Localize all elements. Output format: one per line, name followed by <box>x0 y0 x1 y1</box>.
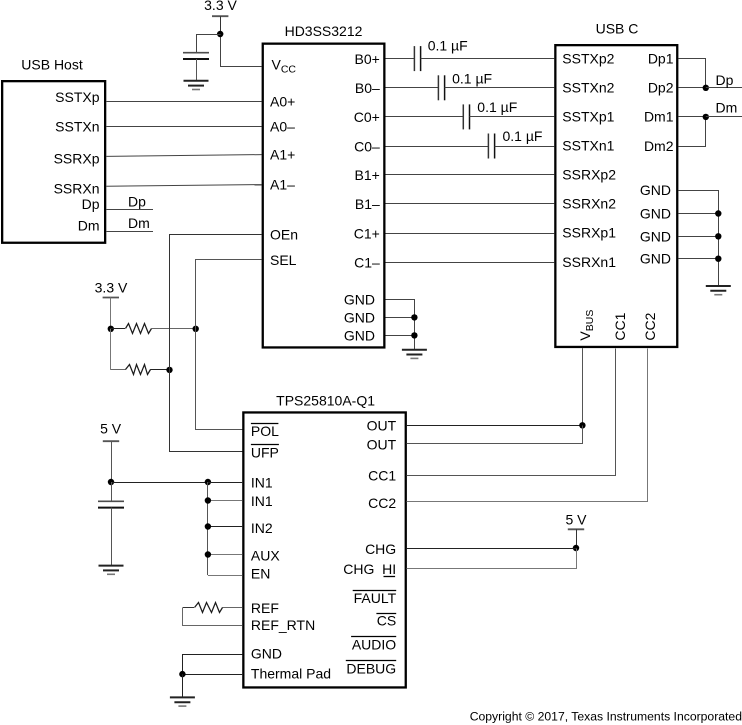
wire U1 B0– to capacitor C3 <box>386 87 439 89</box>
wire U1 C0– to capacitor C5 <box>386 146 489 148</box>
resistor R2 (OEn pull-up) <box>126 365 151 375</box>
svg-text:SSRXn1: SSRXn1 <box>562 254 616 270</box>
svg-text:SEL: SEL <box>270 252 297 268</box>
wire branch to AUX <box>208 554 242 556</box>
svg-text:C1–: C1– <box>354 254 380 270</box>
svg-text:IN2: IN2 <box>251 520 273 536</box>
svg-text:REF_RTN: REF_RTN <box>251 617 315 633</box>
node CHG junction <box>573 545 579 551</box>
svg-text:DEBUG: DEBUG <box>346 661 396 677</box>
svg-text:Dp1: Dp1 <box>648 50 674 66</box>
wire capacitor C5 to USB C <box>495 146 555 148</box>
wire junction to capacitor C1 <box>197 35 221 53</box>
resistor R1 (SEL pull-up) <box>126 324 152 334</box>
node GND/Thermal junction <box>179 671 185 677</box>
node IN2 junction <box>205 523 211 529</box>
svg-text:GND: GND <box>344 310 375 326</box>
U2 pin FAULT overline <box>353 590 397 592</box>
svg-text:Dm: Dm <box>128 215 150 231</box>
wire Dp node to edge <box>706 87 742 89</box>
svg-text:SSTXn2: SSTXn2 <box>562 80 614 96</box>
wire R3 to corner <box>183 607 194 609</box>
wire REF to R3 <box>222 607 242 609</box>
svg-text:C1+: C1+ <box>354 225 380 241</box>
wire junction to capacitor C6 <box>111 482 113 501</box>
wire Dm stub (host) <box>106 231 153 233</box>
node 5V/C6 junction <box>108 479 114 485</box>
wire corner down to REF_RTN <box>183 608 243 626</box>
svg-text:A1–: A1– <box>270 176 295 192</box>
wire Dm2 to Dm node <box>679 117 706 147</box>
svg-text:Dp: Dp <box>716 72 734 88</box>
wire SSRXp to A1+ <box>106 155 261 157</box>
svg-text:C0–: C0– <box>354 138 380 154</box>
U2 pin DEBUG overline <box>346 660 396 662</box>
svg-text:SSRXn2: SSRXn2 <box>562 196 616 212</box>
svg-text:CHG HI: CHG HI <box>343 561 396 577</box>
svg-text:REF: REF <box>251 600 279 616</box>
wire capacitor C6 to ground <box>111 508 113 566</box>
svg-text:AUDIO: AUDIO <box>352 636 396 652</box>
svg-text:A0–: A0– <box>270 119 295 135</box>
node AUX junction <box>205 551 211 557</box>
wire branch to EN <box>208 575 242 577</box>
node R1/SEL junction <box>193 326 199 332</box>
svg-text:EN: EN <box>251 566 270 582</box>
svg-text:0.1 µF: 0.1 µF <box>452 70 492 86</box>
svg-text:VBUS: VBUS <box>577 310 596 341</box>
wire 5V bar to IN1 junction <box>111 441 113 482</box>
svg-text:B1–: B1– <box>355 196 380 212</box>
svg-text:5 V: 5 V <box>565 512 587 528</box>
U2 pin AUDIO overline <box>351 636 396 638</box>
svg-text:SSRXn: SSRXn <box>54 180 100 196</box>
svg-text:0.1 µF: 0.1 µF <box>503 128 543 144</box>
svg-text:GND: GND <box>344 292 375 308</box>
svg-text:SSRXp1: SSRXp1 <box>562 225 616 241</box>
wire 5V to IN branch junction <box>111 482 208 484</box>
svg-text:5 V: 5 V <box>100 420 122 436</box>
svg-text:SSTXp1: SSTXp1 <box>562 109 614 125</box>
wire U2 CC1 to J2 CC1 <box>407 349 616 476</box>
node IN1-2 junction <box>205 497 211 503</box>
svg-text:SSTXn1: SSTXn1 <box>562 138 614 154</box>
svg-text:OEn: OEn <box>270 227 298 243</box>
ground (U1 GND) <box>402 349 427 351</box>
node J2 GND4 junction <box>715 256 721 262</box>
capacitor C3 <box>437 75 439 100</box>
wire OEn to UFP <box>170 235 262 452</box>
wire SSTXp to A0+ <box>106 101 261 103</box>
svg-text:CS: CS <box>377 612 396 628</box>
svg-text:Dp: Dp <box>128 194 146 210</box>
wire U1 C0+ to capacitor C4 <box>386 116 464 118</box>
svg-text:TPS25810A-Q1: TPS25810A-Q1 <box>276 393 375 409</box>
node Dp junction <box>703 85 709 91</box>
wire junction to R1 <box>111 328 125 330</box>
svg-text:CC1: CC1 <box>368 467 396 483</box>
U2 pin CHG HI underline <box>384 576 396 578</box>
wire branch to IN2 <box>208 526 242 528</box>
wire J2 GND2 to bus <box>678 213 718 215</box>
wire R1 to SEL net <box>151 328 196 330</box>
svg-text:IN1: IN1 <box>251 493 273 509</box>
svg-text:GND: GND <box>640 228 671 244</box>
wire U1 C1– to USB C <box>386 262 555 264</box>
svg-text:B0+: B0+ <box>354 51 379 67</box>
capacitor C1 (VCC decoupling) <box>183 52 209 54</box>
wire Dp2 to Dp node <box>678 87 705 89</box>
svg-text:IN1: IN1 <box>251 475 273 491</box>
ground (C6) <box>99 565 124 567</box>
wire CHG to junction <box>407 548 576 550</box>
svg-text:Dp: Dp <box>82 196 100 212</box>
svg-text:Dp2: Dp2 <box>648 80 674 96</box>
wire U1 GND3 to bus <box>386 335 415 337</box>
load switch U2 TPS25810A-Q1 body <box>243 412 405 687</box>
node U1 GND2 junction <box>411 314 417 320</box>
svg-text:Dm2: Dm2 <box>644 138 674 154</box>
wire capacitor C1 to ground <box>196 59 198 81</box>
capacitor C5 <box>487 134 489 159</box>
svg-text:SSRXp2: SSRXp2 <box>562 167 616 183</box>
svg-text:SSTXp: SSTXp <box>55 89 100 105</box>
wire corner to R2 <box>111 369 126 371</box>
ground (U2) <box>170 696 195 698</box>
wire U1 B0+ to capacitor C2 <box>386 58 415 60</box>
svg-text:0.1 µF: 0.1 µF <box>477 99 517 115</box>
ground (C1) <box>184 80 209 82</box>
wire U1 B1– to USB C <box>386 203 555 205</box>
svg-text:A1+: A1+ <box>270 146 295 162</box>
svg-text:3.3 V: 3.3 V <box>204 0 237 13</box>
U2 pin POL overline <box>251 423 279 425</box>
svg-text:B0–: B0– <box>355 80 380 96</box>
wire J2 GND4 to bus <box>678 258 718 260</box>
wire U2 GND to ground bus <box>183 655 243 675</box>
wire U1 GND1 to bus <box>386 300 415 350</box>
svg-text:Dm: Dm <box>716 99 738 115</box>
wire SSRXn to A1– <box>106 185 261 187</box>
svg-text:HD3SS3212: HD3SS3212 <box>285 23 363 39</box>
svg-text:CHG: CHG <box>365 541 396 557</box>
capacitor C2 <box>413 46 415 71</box>
wire Dm node to edge <box>706 116 742 118</box>
node Dm junction <box>703 114 709 120</box>
svg-text:GND: GND <box>640 182 671 198</box>
svg-text:POL: POL <box>251 423 279 439</box>
mux U1 HD3SS3212 body <box>263 44 385 348</box>
svg-text:VCC: VCC <box>272 57 297 76</box>
usb-c connector J2 body <box>555 45 677 347</box>
wire IN branch vertical <box>207 482 209 575</box>
svg-text:0.1 µF: 0.1 µF <box>428 37 468 53</box>
wire SSTXn to A0– <box>106 126 261 128</box>
svg-text:GND: GND <box>640 251 671 267</box>
svg-text:GND: GND <box>640 206 671 222</box>
wire 5V bar to CHG junction <box>576 529 578 548</box>
svg-text:UFP: UFP <box>251 444 279 460</box>
wire supply junction down to R2 <box>110 329 112 370</box>
wire U2 OUT2 to VBUS <box>407 426 583 444</box>
svg-text:Dm: Dm <box>78 217 100 233</box>
node J2 GND2 junction <box>715 210 721 216</box>
node IN branch junction <box>205 479 211 485</box>
node J2 GND3 junction <box>715 233 721 239</box>
wire junction to ground <box>182 674 184 697</box>
svg-text:CC2: CC2 <box>368 495 396 511</box>
wire U1 GND2 to bus <box>386 317 415 319</box>
power 3.3V rail bar (mid) <box>103 297 119 299</box>
U2 pin UFP overline <box>251 444 279 446</box>
capacitor C4 <box>462 104 464 129</box>
U2 pin CS overline <box>376 613 396 615</box>
resistor R3 (REF) <box>195 603 223 613</box>
node 3.3V/VCC junction <box>217 31 223 37</box>
power 5V rail bar (left) <box>103 440 119 442</box>
node R2/OEn junction <box>166 367 172 373</box>
wire J2 GND1 to bus <box>679 191 719 286</box>
node OUT/VBUS junction <box>579 422 585 428</box>
svg-text:C0+: C0+ <box>354 109 380 125</box>
svg-text:USB Host: USB Host <box>21 57 83 73</box>
svg-text:OUT: OUT <box>367 437 397 453</box>
svg-text:Copyright © 2017, Texas Instru: Copyright © 2017, Texas Instruments Inco… <box>470 709 742 723</box>
svg-text:CC2: CC2 <box>642 312 658 340</box>
wire junction to IN1 <box>208 482 242 484</box>
svg-text:Dm1: Dm1 <box>644 109 674 125</box>
svg-text:GND: GND <box>344 328 375 344</box>
wire capacitor C4 to USB C <box>470 116 555 118</box>
wire Dm1 to Dm node <box>678 116 705 118</box>
svg-text:GND: GND <box>251 646 282 662</box>
wire R2 to OEn net <box>150 369 169 371</box>
ground (J2 GND) <box>706 285 731 287</box>
wire U1 B1+ to USB C <box>386 174 555 176</box>
wire 3.3V bar to junction <box>220 16 222 34</box>
wire capacitor C3 to USB C <box>445 87 555 89</box>
node U1 GND3 junction <box>411 332 417 338</box>
svg-text:SSTXp2: SSTXp2 <box>562 50 614 66</box>
wire U1 C1+ to USB C <box>386 233 555 235</box>
wire CHG HI to junction <box>407 549 577 569</box>
node R1/R2 supply junction <box>108 326 114 332</box>
svg-text:Thermal Pad: Thermal Pad <box>251 666 331 682</box>
wire junction to VCC pin <box>221 35 262 67</box>
wire U2 OUT to VBUS <box>407 425 583 427</box>
wire U2 CC2 to J2 CC2 <box>407 349 648 502</box>
svg-text:USB C: USB C <box>596 21 639 37</box>
power 5V rail bar (CHG) <box>568 528 584 530</box>
power 3.3V rail bar (top) <box>212 15 228 17</box>
svg-text:OUT: OUT <box>367 418 397 434</box>
usb-host connector J1 <box>2 81 105 243</box>
svg-text:FAULT: FAULT <box>354 590 397 606</box>
wire capacitor C2 to USB C <box>421 58 555 60</box>
wire SEL to POL <box>196 260 262 430</box>
svg-text:CC1: CC1 <box>612 312 628 340</box>
svg-text:3.3 V: 3.3 V <box>95 280 128 296</box>
wire Thermal Pad to ground bus <box>182 674 242 676</box>
svg-text:B1+: B1+ <box>354 167 379 183</box>
svg-text:SSRXp: SSRXp <box>54 150 100 166</box>
capacitor C6 (5V bulk) <box>98 500 124 502</box>
svg-text:A0+: A0+ <box>270 94 295 110</box>
wire J2 GND3 to bus <box>678 236 718 238</box>
svg-text:AUX: AUX <box>251 547 280 563</box>
svg-text:SSTXn: SSTXn <box>55 119 99 135</box>
wire Dp1 to Dp node <box>679 59 706 88</box>
wire 3.3V bar to R1 junction <box>110 298 112 329</box>
wire Dp stub (host) <box>106 209 153 211</box>
wire branch to IN1-2 <box>208 500 242 502</box>
wire VBUS vertical <box>582 348 584 425</box>
